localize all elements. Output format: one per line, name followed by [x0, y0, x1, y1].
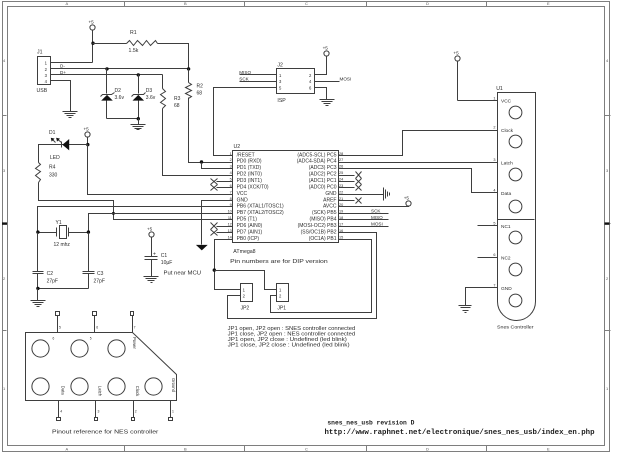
- svg-text:PD7 (AIN1): PD7 (AIN1): [237, 229, 263, 235]
- svg-text:1: 1: [45, 61, 48, 66]
- ground (J1 shield): [63, 112, 78, 118]
- wire PC5 to Snes Clock: [339, 131, 498, 156]
- IC U2 ATmega8 body: [230, 144, 338, 265]
- junction node D-/R1/R2: [187, 67, 190, 70]
- wire J1 pin4 to ground: [51, 81, 71, 112]
- svg-text:U1: U1: [496, 86, 503, 92]
- connector U1 Snes Controller: [496, 86, 535, 330]
- svg-text:USB: USB: [37, 88, 48, 94]
- svg-text:+5: +5: [404, 195, 410, 200]
- connector J1 USB: [37, 50, 51, 94]
- svg-text:22: 22: [339, 190, 343, 194]
- svg-text:1.5k: 1.5k: [129, 48, 139, 54]
- wire JP1 pin2 to PB1: [271, 240, 372, 313]
- svg-text:GND: GND: [237, 197, 249, 203]
- svg-text:4: 4: [493, 189, 495, 193]
- wire LED to R4: [39, 145, 63, 163]
- NES hole bottom 3: [108, 378, 125, 395]
- capacitor C1 10uF: [145, 252, 173, 277]
- svg-text:D2: D2: [115, 88, 122, 94]
- svg-text:A: A: [66, 1, 69, 6]
- ground (crystal caps): [31, 289, 46, 307]
- svg-text:JP2: JP2: [241, 305, 250, 311]
- svg-text:330: 330: [49, 173, 58, 179]
- no-connect pin5: [211, 179, 233, 185]
- wire R4 to PD5: [39, 183, 233, 220]
- svg-text:4: 4: [3, 58, 6, 63]
- svg-text:R4: R4: [49, 165, 56, 171]
- svg-text:SCK: SCK: [371, 209, 381, 214]
- U1 pin numbers: [493, 96, 495, 287]
- svg-text:MOSI: MOSI: [340, 76, 352, 81]
- svg-text:2: 2: [3, 276, 6, 281]
- svg-text:+5: +5: [453, 51, 459, 56]
- svg-text:PD6 (AIN0): PD6 (AIN0): [237, 223, 263, 229]
- U2 right pin numbers: [339, 152, 343, 240]
- svg-text:5: 5: [279, 85, 282, 90]
- svg-text:27: 27: [339, 158, 343, 162]
- svg-text:Snes Controller: Snes Controller: [497, 324, 534, 330]
- power symbol +5 (AVCC): [404, 195, 411, 206]
- no-connect pin25: [339, 172, 362, 179]
- svg-text:PD2 (INT0): PD2 (INT0): [237, 172, 263, 178]
- svg-text:(ADC1) PC1: (ADC1) PC1: [309, 178, 337, 184]
- net SCK stub: [339, 209, 389, 214]
- wire +5 to VCC pin7: [88, 145, 233, 195]
- svg-text:D-: D-: [60, 64, 65, 69]
- svg-text:JP1 close, JP2 close : Undefin: JP1 close, JP2 close : Undefined (led bl…: [228, 343, 350, 349]
- jumper explanation text: [228, 326, 356, 349]
- svg-text:J2: J2: [277, 63, 283, 69]
- svg-text:3: 3: [45, 73, 48, 78]
- svg-text:D: D: [426, 1, 429, 6]
- svg-text:10µF: 10µF: [161, 260, 173, 266]
- net D- wire: [51, 64, 189, 69]
- power symbol +5 (C1): [147, 226, 154, 256]
- no-connect pin24: [339, 179, 362, 185]
- NES hole bottom 1: [32, 378, 49, 395]
- NES pin stub top 1: [53, 312, 62, 341]
- svg-text:17: 17: [339, 222, 343, 226]
- svg-text:PD5 (T1): PD5 (T1): [237, 217, 258, 223]
- svg-text:U2: U2: [234, 144, 241, 150]
- svg-text:(ADC5-SCL) PC5: (ADC5-SCL) PC5: [297, 152, 336, 158]
- wire PC3 to Snes Data: [339, 169, 498, 193]
- svg-text:+5: +5: [84, 126, 90, 131]
- ground (zeners): [131, 119, 146, 130]
- svg-text:1: 1: [606, 386, 609, 391]
- svg-text:Power: Power: [132, 337, 137, 349]
- svg-text:C: C: [305, 447, 308, 452]
- svg-text:GND: GND: [325, 191, 337, 197]
- svg-text:(MOSI-OC2) PB3: (MOSI-OC2) PB3: [298, 223, 337, 229]
- svg-text:68: 68: [174, 103, 180, 109]
- svg-text:(ADC3) PC3: (ADC3) PC3: [309, 165, 337, 171]
- wire XTAL2: [89, 214, 233, 233]
- svg-text:7: 7: [230, 190, 232, 194]
- wire node to PD1: [202, 163, 233, 169]
- junction node jumper split: [213, 268, 216, 271]
- svg-text:D1: D1: [49, 130, 56, 136]
- svg-text:VCC: VCC: [237, 191, 248, 197]
- svg-text:2: 2: [45, 67, 48, 72]
- svg-text:AREF: AREF: [323, 197, 336, 203]
- wire PC4 to Snes Latch: [339, 162, 498, 164]
- svg-text:6: 6: [493, 253, 495, 257]
- no-connect pin23: [339, 185, 362, 191]
- svg-text:R3: R3: [174, 96, 181, 102]
- NES pin stub bottom 2 (Latch): [95, 386, 103, 421]
- svg-text:PD0 (RXD): PD0 (RXD): [237, 159, 262, 165]
- svg-text:4: 4: [60, 409, 62, 413]
- svg-text:2: 2: [243, 294, 246, 299]
- NES pin stub top 3 (Power): [131, 312, 138, 350]
- svg-text:Data: Data: [61, 386, 66, 396]
- wire pin20 AVCC to +5: [339, 206, 409, 207]
- svg-text:C2: C2: [47, 271, 54, 277]
- svg-text:12: 12: [228, 222, 232, 226]
- svg-text:24: 24: [339, 178, 343, 182]
- jumper JP1: [277, 284, 289, 312]
- svg-text:PB6 (XTAL1/TOSC1): PB6 (XTAL1/TOSC1): [237, 204, 284, 210]
- svg-text:5: 5: [90, 337, 92, 341]
- svg-text:2: 2: [279, 294, 282, 299]
- svg-text:(OC1A) PB1: (OC1A) PB1: [309, 236, 337, 242]
- net MISO wire to J2 pin1: [239, 70, 276, 75]
- svg-text:PD4 (XCK/T0): PD4 (XCK/T0): [237, 184, 269, 190]
- capacitor C2 27pF: [33, 233, 59, 289]
- border bottom ticks and labels: [66, 446, 551, 452]
- svg-text:LED: LED: [50, 155, 60, 161]
- svg-text:9: 9: [230, 203, 232, 207]
- U2 left pin labels: [237, 152, 284, 242]
- svg-text:Data: Data: [501, 191, 511, 197]
- wire J2 pin5 to /RESET: [214, 88, 277, 156]
- svg-text:E: E: [547, 447, 550, 452]
- svg-text:3: 3: [98, 409, 100, 413]
- NES hole bottom 2: [71, 378, 88, 395]
- power symbol +5 (top left rail): [89, 20, 96, 63]
- svg-text:C1: C1: [161, 253, 168, 259]
- svg-text:6: 6: [309, 85, 312, 90]
- zener diode D3 3.6v: [132, 75, 156, 119]
- ground (Snes): [459, 306, 472, 313]
- svg-text:(SS/OC1B) PB2: (SS/OC1B) PB2: [301, 229, 337, 235]
- svg-text:2: 2: [309, 73, 312, 78]
- svg-text:14: 14: [228, 235, 232, 239]
- svg-text:C3: C3: [97, 271, 104, 277]
- svg-text:SCK: SCK: [239, 76, 249, 81]
- svg-text:3: 3: [493, 158, 495, 162]
- svg-text:3.6v: 3.6v: [146, 95, 156, 101]
- junction node D-/D2: [105, 67, 108, 70]
- svg-text:ISP: ISP: [277, 98, 286, 104]
- junction node crystal right: [87, 230, 90, 233]
- svg-text:1: 1: [279, 73, 282, 78]
- svg-text:1: 1: [279, 288, 282, 293]
- svg-text:MISO: MISO: [239, 70, 251, 75]
- NES pin stub bottom 3 (Clock): [132, 386, 140, 421]
- svg-text:68: 68: [197, 90, 203, 96]
- svg-text:(ADC2) PC2: (ADC2) PC2: [309, 172, 337, 178]
- junction node LED/+5: [86, 143, 89, 146]
- svg-text:E: E: [547, 1, 550, 6]
- svg-text:4: 4: [45, 79, 48, 84]
- capacitor C3 27pF: [83, 233, 105, 289]
- U2 right pin labels: [297, 152, 337, 242]
- NES hole top 3: [108, 340, 125, 357]
- svg-text:2: 2: [135, 409, 137, 413]
- svg-text:1: 1: [243, 288, 246, 293]
- svg-text:12 mhz: 12 mhz: [54, 242, 71, 248]
- svg-text:3: 3: [3, 168, 6, 173]
- svg-text:Latch: Latch: [98, 386, 103, 397]
- svg-text:Pinout reference for NES contr: Pinout reference for NES controller: [52, 430, 159, 436]
- net D+ wire: [51, 70, 163, 75]
- svg-text:+5: +5: [323, 45, 329, 50]
- NES pin stub bottom 4 (Ground): [169, 378, 177, 421]
- NES pinout reference outline: [26, 333, 177, 401]
- no-connect pin21 AREF: [339, 198, 362, 204]
- power symbol +5 (Snes VCC): [453, 51, 460, 101]
- NES hole bottom 4: [145, 378, 162, 395]
- wire R3 to PD2: [163, 109, 233, 176]
- junction node caps gnd: [36, 287, 39, 290]
- net MISO stub: [339, 215, 389, 220]
- svg-text:R1: R1: [130, 30, 137, 36]
- resistor R1 1.5k: [127, 30, 158, 54]
- border left ticks and labels: [2, 58, 7, 391]
- wire J2 pin2 to +5: [315, 56, 327, 75]
- resistor R3 68: [161, 75, 181, 109]
- wire PB0 pin14 to jumpers: [215, 240, 241, 290]
- svg-text:4: 4: [230, 171, 232, 175]
- svg-text:3: 3: [606, 168, 609, 173]
- svg-text:3: 3: [230, 165, 232, 169]
- svg-text:GND: GND: [501, 286, 512, 292]
- svg-text:4: 4: [606, 58, 609, 63]
- svg-text:Ground: Ground: [171, 378, 176, 393]
- NES pin stub bottom 1 (Data): [57, 386, 66, 421]
- svg-text:2: 2: [606, 276, 609, 281]
- junction node PD0/PD1: [200, 160, 203, 163]
- wire GND pin8: [202, 201, 233, 245]
- svg-text:D+: D+: [60, 70, 66, 75]
- svg-text:/RESET: /RESET: [237, 152, 255, 158]
- svg-text:Pin numbers are for DIP versio: Pin numbers are for DIP version: [230, 259, 328, 265]
- svg-text:27pF: 27pF: [47, 278, 58, 284]
- svg-text:3: 3: [279, 79, 282, 84]
- junction node crystal left: [36, 230, 39, 233]
- pin stub NC2: [478, 257, 498, 259]
- svg-text:ATmega8: ATmega8: [233, 249, 255, 255]
- svg-text:+5: +5: [147, 226, 153, 231]
- wire XTAL1: [38, 207, 233, 233]
- junction node at +5/R1: [91, 42, 94, 45]
- svg-text:25: 25: [339, 171, 343, 175]
- wire J1 pin1 to +5 rail: [51, 62, 93, 64]
- svg-text:B: B: [184, 1, 187, 6]
- svg-text:5: 5: [59, 326, 61, 330]
- svg-text:R2: R2: [197, 84, 204, 90]
- svg-text:D3: D3: [146, 88, 153, 94]
- svg-text:J1: J1: [37, 50, 43, 56]
- resistor R2 68: [186, 69, 204, 99]
- wire zener commons: [107, 118, 139, 120]
- svg-text:PB7 (XTAL2/TOSC2): PB7 (XTAL2/TOSC2): [237, 210, 284, 216]
- NES hole top 1: [32, 340, 49, 357]
- wire U1 GND pin7 to ground: [466, 288, 498, 306]
- zener diode D2 3.6v: [101, 69, 125, 119]
- wire pin22 to ground: [339, 194, 384, 196]
- svg-text:Clock: Clock: [135, 386, 140, 397]
- svg-text:(ADC0) PC0: (ADC0) PC0: [309, 184, 337, 190]
- LED D1: [49, 130, 88, 161]
- svg-text:2: 2: [230, 158, 232, 162]
- power symbol +5 (ISP): [323, 45, 330, 56]
- ground (MCU, triangle): [196, 245, 208, 251]
- junction node zener gnd: [137, 117, 140, 120]
- svg-text:27pF: 27pF: [94, 278, 105, 284]
- svg-text:MISO: MISO: [371, 215, 383, 220]
- svg-text:MOSI: MOSI: [371, 221, 383, 226]
- wire R1 to D- node: [158, 44, 189, 69]
- connector J2 ISP: [277, 63, 315, 105]
- no-connect pin13: [211, 230, 233, 236]
- wire R2 to PD0: [189, 98, 233, 163]
- svg-text:2: 2: [493, 126, 495, 130]
- svg-text:B: B: [184, 447, 187, 452]
- wire caps common: [38, 288, 89, 290]
- net SCK wire to J2 pin3: [239, 76, 276, 81]
- svg-text:3.6v: 3.6v: [115, 95, 125, 101]
- crystal Y1 12 mhz: [38, 220, 89, 248]
- svg-text:NC2: NC2: [501, 255, 511, 261]
- ground (ISP): [320, 100, 335, 106]
- junction node D+/D3: [137, 73, 140, 76]
- U2 left pin numbers: [228, 152, 232, 240]
- svg-text:(ADC4-SDA) PC4: (ADC4-SDA) PC4: [297, 159, 337, 165]
- wire JP2 pin2 to PB2: [228, 233, 377, 319]
- svg-text:6: 6: [53, 337, 55, 341]
- junction artifact on crossing: [112, 212, 115, 215]
- svg-text:JP1: JP1: [277, 305, 286, 311]
- no-connect pin12: [211, 223, 233, 230]
- svg-text:10: 10: [228, 210, 232, 214]
- svg-text:4: 4: [309, 79, 312, 84]
- svg-text:NC1: NC1: [501, 224, 511, 230]
- net MOSI stub: [339, 221, 389, 226]
- svg-text:1: 1: [3, 386, 6, 391]
- svg-text:Latch: Latch: [501, 160, 513, 166]
- svg-text:+5: +5: [89, 20, 95, 25]
- pin stub NC1: [478, 225, 498, 227]
- svg-text:D: D: [426, 447, 429, 452]
- NES hole top 2: [71, 340, 88, 357]
- border top ticks and labels: [66, 1, 551, 7]
- svg-text:1: 1: [172, 409, 174, 413]
- svg-text:(MISO) PB4: (MISO) PB4: [310, 217, 337, 223]
- svg-text:Put near MCU: Put near MCU: [164, 270, 202, 276]
- wire node to JP1 pin1: [215, 271, 277, 290]
- wire J2 pin6 to ground: [315, 88, 327, 100]
- resistor R4 330: [36, 163, 58, 183]
- svg-text:11: 11: [228, 216, 232, 220]
- svg-text:A: A: [66, 447, 69, 452]
- net MOSI wire J2 pin4: [315, 76, 352, 81]
- svg-text:VCC: VCC: [501, 99, 512, 105]
- svg-text:snes_nes_usb revision D: snes_nes_usb revision D: [327, 419, 414, 426]
- svg-text:1: 1: [493, 96, 495, 100]
- svg-text:15: 15: [339, 235, 343, 239]
- svg-text:8: 8: [230, 197, 232, 201]
- ground (C1): [144, 277, 159, 283]
- wire +5 rail to R1: [93, 43, 127, 45]
- svg-text:5: 5: [230, 178, 232, 182]
- ground (AVCC side, rotated): [384, 188, 390, 201]
- no-connect pin6: [211, 185, 233, 191]
- power symbol +5 (LED rail): [84, 126, 91, 144]
- NES pin stub top 2: [90, 312, 99, 341]
- svg-text:http://www.raphnet.net/electro: http://www.raphnet.net/electronique/snes…: [325, 429, 596, 437]
- svg-text:PB0 (ICP): PB0 (ICP): [237, 236, 260, 242]
- jumper JP2: [241, 284, 253, 312]
- wire +5 to U1 VCC pin1: [458, 100, 498, 102]
- svg-text:PD1 (TXD): PD1 (TXD): [237, 165, 262, 171]
- svg-text:C: C: [305, 1, 308, 6]
- svg-text:Clock: Clock: [501, 128, 514, 134]
- svg-text:7: 7: [134, 326, 136, 330]
- border right ticks and labels: [605, 58, 611, 391]
- svg-text:PD3 (INT1): PD3 (INT1): [237, 178, 263, 184]
- svg-text:(SCK) PB5: (SCK) PB5: [312, 210, 337, 216]
- svg-text:AVCC: AVCC: [323, 204, 337, 210]
- svg-text:6: 6: [96, 326, 98, 330]
